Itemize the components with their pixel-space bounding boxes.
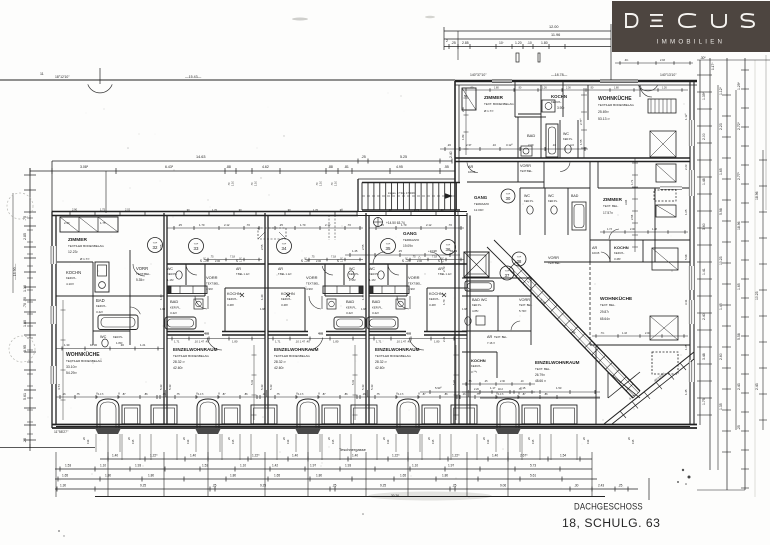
svg-text:1.16²: 1.16² <box>369 278 376 282</box>
strip end vertical <box>648 478 650 500</box>
svg-text:3.48²: 3.48² <box>227 303 234 307</box>
module 366 living room wall <box>369 331 406 333</box>
svg-text:1.53: 1.53 <box>202 464 208 468</box>
svg-text:1.93: 1.93 <box>345 464 351 468</box>
svg-text:1.10: 1.10 <box>240 464 246 468</box>
svg-text:42.60²: 42.60² <box>173 366 183 370</box>
svg-text:2.55: 2.55 <box>361 244 365 250</box>
svg-text:4.62: 4.62 <box>262 165 269 169</box>
leftmost vorr <box>129 250 131 345</box>
svg-text:2.90: 2.90 <box>64 221 70 225</box>
svg-text:3.42²: 3.42² <box>372 311 379 315</box>
svg-text:1.17⁵: 1.17⁵ <box>298 392 304 396</box>
faint scan smudges <box>368 492 492 501</box>
svg-text:63.09: 63.09 <box>450 249 457 253</box>
svg-text:1.39⁵: 1.39⁵ <box>461 134 465 140</box>
right dimension column verticals <box>699 60 701 425</box>
module 164 bathtub <box>165 317 196 329</box>
svg-text:1.10: 1.10 <box>232 181 235 186</box>
svg-text:KER.PL.: KER.PL. <box>548 199 558 203</box>
svg-text:12.09²²: 12.09²² <box>474 208 484 212</box>
svg-text:KOCHN: KOCHN <box>614 245 629 250</box>
module 164 BAD <box>167 295 205 297</box>
leftmost dim ticks <box>56 348 164 350</box>
svg-text:1.65: 1.65 <box>684 209 688 215</box>
svg-text:.25: .25 <box>451 41 456 45</box>
corridor dim line <box>345 254 460 256</box>
svg-text:2.12: 2.12 <box>224 223 230 227</box>
svg-text:VORR: VORR <box>520 164 531 168</box>
svg-text:33: 33 <box>194 246 199 251</box>
module 265 VORR <box>324 264 326 296</box>
svg-text:18.96: 18.96 <box>737 221 741 230</box>
svg-text:2.93: 2.93 <box>660 59 665 62</box>
svg-text:KOCHN: KOCHN <box>227 292 241 296</box>
zimmer right vertical dim chain <box>634 158 636 252</box>
svg-text:VORR: VORR <box>306 275 318 280</box>
svg-text:BAD: BAD <box>96 298 105 303</box>
svg-text:1.70: 1.70 <box>300 223 306 227</box>
right loggia rects <box>656 164 676 182</box>
svg-text:VORR: VORR <box>136 266 148 271</box>
svg-text:140°13'10'': 140°13'10'' <box>660 73 677 77</box>
svg-text:28.32 ²²: 28.32 ²² <box>274 360 287 364</box>
svg-text:1.98: 1.98 <box>160 307 166 311</box>
building bottom wall <box>52 424 697 426</box>
svg-text:2.00: 2.00 <box>316 259 322 263</box>
module 366 door arcs <box>388 266 399 275</box>
svg-text:.10 1.47 .40: .10 1.47 .40 <box>194 340 209 344</box>
faint dashed circles left margin <box>7 193 33 219</box>
svg-text:WC: WC <box>100 335 107 339</box>
svg-text:.75: .75 <box>476 392 480 396</box>
svg-text:2.30: 2.30 <box>500 380 505 383</box>
corridor door arcs below row1 wall <box>467 163 478 173</box>
left wall window gaps <box>51 246 53 264</box>
row1 closet left <box>462 88 476 110</box>
svg-text:4.95: 4.95 <box>396 165 403 169</box>
corridor door arcs <box>373 252 385 264</box>
leftmost kitchen fixtures <box>95 262 109 292</box>
svg-text:.55: .55 <box>444 165 449 169</box>
svg-text:VORR: VORR <box>519 298 530 302</box>
svg-text:5.61: 5.61 <box>23 393 27 400</box>
svg-text:2.55: 2.55 <box>630 214 634 220</box>
svg-text:WOHNKÜCHE: WOHNKÜCHE <box>598 95 632 102</box>
svg-text:3.31: 3.31 <box>684 299 688 305</box>
svg-text:7.18: 7.18 <box>432 256 437 259</box>
svg-text:1.80: 1.80 <box>316 474 322 478</box>
svg-text:5.25: 5.25 <box>400 155 407 159</box>
svg-text:1.73: 1.73 <box>607 228 612 231</box>
svg-text:1.80: 1.80 <box>541 41 548 45</box>
svg-text:2.00: 2.00 <box>417 259 423 263</box>
svg-text:.86: .86 <box>544 392 548 396</box>
svg-text:1.40: 1.40 <box>352 454 358 458</box>
svg-text:1.80: 1.80 <box>23 320 27 327</box>
module 164 door arcs <box>186 266 197 275</box>
svg-text:2.12: 2.12 <box>325 223 331 227</box>
svg-text:45B: 45B <box>406 332 411 336</box>
svg-text:1.93: 1.93 <box>135 464 141 468</box>
svg-text:1.43: 1.43 <box>622 332 627 335</box>
svg-text:.70: .70 <box>306 259 310 263</box>
svg-text:.75: .75 <box>276 392 280 396</box>
svg-text:1.10: 1.10 <box>335 181 338 186</box>
svg-text:.86: .86 <box>444 392 448 396</box>
diagonal end cross <box>608 372 640 398</box>
elevator shaft <box>464 252 489 277</box>
svg-text:1.70: 1.70 <box>442 299 446 305</box>
svg-text:2: 2 <box>446 39 448 43</box>
svg-text:TEXT.BEL.: TEXT.BEL. <box>520 169 533 173</box>
svg-text:12.23²: 12.23² <box>68 250 78 254</box>
svg-text:29.87²: 29.87² <box>600 310 609 314</box>
left dimension column <box>29 168 31 448</box>
svg-text:KOCHN: KOCHN <box>429 292 443 296</box>
svg-text:ZIMMER: ZIMMER <box>603 197 622 203</box>
svg-text:133: 133 <box>586 439 590 444</box>
svg-text:KOCHN: KOCHN <box>551 94 567 99</box>
top-right dimension block <box>444 30 611 32</box>
top wall niche at 270 <box>258 228 286 239</box>
svg-text:2.50: 2.50 <box>461 106 465 112</box>
svg-text:TEXTILER BODENBELAG: TEXTILER BODENBELAG <box>173 354 210 358</box>
svg-text:2.23: 2.23 <box>684 164 688 170</box>
svg-text:10·: 10· <box>499 41 504 45</box>
wc vorr bad cluster <box>520 187 590 189</box>
svg-text:28.32 ²²: 28.32 ²² <box>375 360 388 364</box>
svg-text:2.21: 2.21 <box>442 336 446 342</box>
leftmost top wall ticks <box>69 211 71 216</box>
svg-text:EINZELWOHNRAUM: EINZELWOHNRAUM <box>535 360 580 365</box>
svg-text:WC: WC <box>369 267 375 271</box>
svg-text:3·⁵⁹²: 3·⁵⁹² <box>471 370 477 374</box>
svg-text:11: 11 <box>40 72 44 76</box>
right section inner wall line <box>480 397 600 399</box>
svg-text:.25: .25 <box>618 484 623 488</box>
module 265 KOCHN <box>304 288 306 331</box>
svg-text:EINZELWOHNRAUM: EINZELWOHNRAUM <box>173 347 218 352</box>
svg-text:30: 30 <box>506 196 511 201</box>
svg-text:EINZELWOHNRAUM: EINZELWOHNRAUM <box>274 347 319 352</box>
window bay turret at 208 <box>197 399 219 428</box>
svg-text:.25: .25 <box>23 438 27 443</box>
svg-text:1.70: 1.70 <box>212 208 218 212</box>
svg-text:.30⁵: .30⁵ <box>700 56 706 60</box>
big diagonal ramp <box>516 262 640 391</box>
svg-text:9.25: 9.25 <box>260 484 266 488</box>
bottom right diagonal corner <box>604 352 694 424</box>
svg-text:135: 135 <box>431 439 435 444</box>
svg-text:1.65: 1.65 <box>737 283 741 290</box>
svg-text:WOHNKÜCHE: WOHNKÜCHE <box>600 295 633 302</box>
module 366 shelf <box>369 286 409 294</box>
svg-text:KER.PL.: KER.PL. <box>66 276 77 280</box>
svg-text:1.80: 1.80 <box>333 340 339 344</box>
right side dashed alcove <box>589 262 591 345</box>
svg-text:.86: .86 <box>144 392 148 396</box>
svg-text:135: 135 <box>131 439 135 444</box>
svg-text:1.75: 1.75 <box>100 208 106 212</box>
svg-text:5.61: 5.61 <box>530 474 536 478</box>
svg-text:TEXTILER BODENBELAG: TEXTILER BODENBELAG <box>598 103 635 107</box>
svg-text:TEXTILER BODENBELAG: TEXTILER BODENBELAG <box>274 354 311 358</box>
svg-text:11.96: 11.96 <box>551 33 560 37</box>
DECUS logo box <box>612 1 770 52</box>
svg-text:1.17⁵: 1.17⁵ <box>198 392 204 396</box>
svg-text:135: 135 <box>331 439 335 444</box>
apartment module at 164 corridor ticks <box>167 227 262 229</box>
svg-text:17.57²²: 17.57²² <box>603 211 613 215</box>
svg-text:KER.PL.: KER.PL. <box>614 251 625 255</box>
svg-text:25.69²²: 25.69²² <box>598 110 610 114</box>
svg-text:TEXT. BEL.: TEXT. BEL. <box>535 367 551 371</box>
svg-text:BAD: BAD <box>372 299 380 304</box>
svg-text:1.75: 1.75 <box>702 398 706 405</box>
roof line top <box>0 79 455 81</box>
svg-text:—15.43—: —15.43— <box>185 75 202 79</box>
svg-text:KER.PL.: KER.PL. <box>170 306 181 310</box>
svg-text:TEXT.BEL.: TEXT.BEL. <box>306 282 320 286</box>
strip ticks row4 <box>56 487 58 492</box>
svg-text:1.80: 1.80 <box>494 87 499 90</box>
svg-text:133: 133 <box>286 439 290 444</box>
svg-text:1.17⁵: 1.17⁵ <box>398 392 404 396</box>
apartment 37 bathtub <box>465 281 494 291</box>
svg-text:1.35: 1.35 <box>719 403 723 410</box>
svg-text:9.25: 9.25 <box>380 484 386 488</box>
svg-text:.10: .10 <box>492 143 496 147</box>
svg-text:.75: .75 <box>376 392 380 396</box>
svg-text:1.80: 1.80 <box>232 340 238 344</box>
svg-text:1.71: 1.71 <box>630 179 634 185</box>
lower mid dim row <box>420 391 600 393</box>
leftmost circled number <box>148 238 163 253</box>
svg-text:2.85: 2.85 <box>23 233 27 240</box>
strip ticks row2 <box>59 467 61 472</box>
svg-text:5.43: 5.43 <box>159 384 163 390</box>
svg-text:KER.PL.: KER.PL. <box>429 297 440 301</box>
module 366 circled number <box>381 239 396 254</box>
svg-text:1.80: 1.80 <box>230 474 236 478</box>
svg-text:.10 1.47 .40: .10 1.47 .40 <box>295 340 310 344</box>
apartment 37 dim rows <box>462 383 535 385</box>
module 265 top wall ticks <box>284 211 286 216</box>
svg-text:2.00: 2.00 <box>630 228 635 231</box>
svg-text:.90: .90 <box>186 208 190 212</box>
svg-text:.75: .75 <box>412 256 416 259</box>
svg-text:1.10: 1.10 <box>412 464 418 468</box>
svg-text:KER.PL.: KER.PL. <box>563 137 573 141</box>
svg-text:Ø 1.7²²: Ø 1.7²² <box>80 257 89 261</box>
apartment module at 265 corridor ticks <box>268 227 363 229</box>
row1 radiator right <box>648 99 676 113</box>
svg-text:.26: .26 <box>447 143 451 147</box>
apartment divider wall x=366 <box>365 213 367 424</box>
window bay turret at 408 <box>397 399 419 428</box>
svg-text:10.30: 10.30 <box>90 343 97 347</box>
diagonal upper stub <box>494 240 516 262</box>
svg-text:4.99²: 4.99² <box>206 287 213 291</box>
svg-text:TEXTILER BODENBELAG: TEXTILER BODENBELAG <box>68 244 105 248</box>
svg-text:2.90: 2.90 <box>72 208 78 212</box>
strip long verticals <box>55 452 57 497</box>
module 265 pre-wall dim line <box>305 259 363 261</box>
svg-text:10.23: 10.23 <box>719 256 723 265</box>
svg-text:1.98: 1.98 <box>260 307 266 311</box>
svg-text:.10: .10 <box>552 143 556 147</box>
svg-text:2.85: 2.85 <box>462 41 469 45</box>
svg-text:AR: AR <box>592 246 598 250</box>
apartment 37 toilet <box>465 317 471 325</box>
svg-text:1.22⁵: 1.22⁵ <box>392 454 400 458</box>
svg-text:.16: .16 <box>362 392 366 396</box>
svg-text:5.93⁵: 5.93⁵ <box>435 386 442 390</box>
svg-text:1.80: 1.80 <box>442 474 448 478</box>
bay window at 351 <box>351 405 377 424</box>
svg-text:.30: .30 <box>120 343 124 347</box>
module 265 washbasin <box>327 299 336 309</box>
svg-text:1.98: 1.98 <box>361 307 367 311</box>
svg-text:1.45: 1.45 <box>719 303 723 310</box>
svg-text:.86: .86 <box>244 392 248 396</box>
bay window at 151 <box>151 405 177 424</box>
svg-text:133: 133 <box>486 439 490 444</box>
svg-text:26.79²²: 26.79²² <box>535 373 545 377</box>
row2 walls <box>517 162 519 183</box>
svg-text:DACHGESCHOSS: DACHGESCHOSS <box>574 501 643 512</box>
svg-text:.90: .90 <box>287 208 291 212</box>
svg-text:2.02: 2.02 <box>125 208 131 212</box>
svg-text:WC: WC <box>524 194 530 198</box>
row1 bottom wall <box>455 157 690 159</box>
svg-text:3.60: 3.60 <box>702 223 706 230</box>
vertical stub from dim to wall <box>105 171 107 213</box>
svg-text:1.26: 1.26 <box>542 87 547 90</box>
svg-text:2.37: 2.37 <box>466 143 472 147</box>
row1 kochn sink <box>542 100 555 112</box>
svg-text:3.48²: 3.48² <box>281 303 288 307</box>
module 265 WC <box>343 264 345 285</box>
svg-text:.70: .70 <box>347 223 351 227</box>
svg-text:100.B: 100.B <box>592 251 599 255</box>
window bay turret at 108 <box>97 399 119 428</box>
leftmost bad <box>92 296 94 345</box>
svg-text:1.65: 1.65 <box>684 344 688 350</box>
svg-text:.55: .55 <box>468 380 472 383</box>
svg-text:TERRAZZO: TERRAZZO <box>474 202 490 206</box>
svg-text:KER.PL.: KER.PL. <box>524 199 534 203</box>
svg-text:.25: .25 <box>332 484 337 488</box>
window bay turret at 508 <box>497 399 519 428</box>
right dimension column ticks <box>697 74 712 76</box>
svg-text:3.84: 3.84 <box>624 199 628 205</box>
row1 dim line <box>440 148 588 150</box>
svg-text:3.90²: 3.90² <box>557 106 564 110</box>
svg-text:.75: .75 <box>210 256 214 259</box>
svg-text:KER.PL.: KER.PL. <box>96 304 107 308</box>
svg-text:18°12'10'': 18°12'10'' <box>55 75 70 79</box>
svg-text:1.65: 1.65 <box>62 474 68 478</box>
svg-text:1.65: 1.65 <box>400 474 406 478</box>
svg-text:.88: .88 <box>226 165 231 169</box>
svg-text:42.60²: 42.60² <box>375 366 385 370</box>
svg-text:+14.50 63.74: +14.50 63.74 <box>386 221 405 225</box>
svg-text:WC: WC <box>167 267 173 271</box>
svg-text:TEXT. BEL.: TEXT. BEL. <box>600 303 616 307</box>
svg-text:18.96: 18.96 <box>755 191 759 200</box>
stairwell block upper <box>358 178 455 180</box>
svg-text:.81: .81 <box>344 165 349 169</box>
svg-text:5.43: 5.43 <box>168 384 172 390</box>
svg-text:4.0: 4.0 <box>570 143 574 147</box>
apartment divider wall x=467 <box>466 213 468 424</box>
svg-text:1.41: 1.41 <box>702 268 706 275</box>
svg-text:1.20: 1.20 <box>515 41 522 45</box>
svg-text:1.70: 1.70 <box>199 223 205 227</box>
svg-text:1.17: 1.17 <box>490 386 496 390</box>
svg-text:WC: WC <box>563 132 569 136</box>
svg-text:30.26: 30.26 <box>391 494 399 498</box>
scan speckles <box>256 147 257 148</box>
svg-text:5.41: 5.41 <box>351 379 355 385</box>
svg-text:1.98: 1.98 <box>462 307 468 311</box>
svg-text:.90: .90 <box>238 208 242 212</box>
svg-text:2.77⁵: 2.77⁵ <box>579 118 583 125</box>
bottom dimension strips <box>100 458 592 460</box>
svg-text:1.40: 1.40 <box>112 454 118 458</box>
svg-text:3.42²: 3.42² <box>346 311 353 315</box>
svg-text:KER.PL.: KER.PL. <box>227 297 238 301</box>
logo word DECUS <box>625 14 754 27</box>
zimmer closet top-left <box>60 217 118 232</box>
svg-text:5.98: 5.98 <box>684 254 688 260</box>
svg-text:T.BEL 1.12²: T.BEL 1.12² <box>278 272 292 276</box>
svg-text:.88: .88 <box>328 165 333 169</box>
bay window at 551 <box>551 405 577 424</box>
svg-text:1.16²: 1.16² <box>167 278 174 282</box>
svg-text:3.48: 3.48 <box>702 353 706 360</box>
svg-text:ZIMMER: ZIMMER <box>484 95 503 101</box>
svg-text:3.95: 3.95 <box>23 345 27 352</box>
right wall window gaps <box>689 120 691 146</box>
svg-text:BAD: BAD <box>527 133 535 138</box>
svg-text:1.65: 1.65 <box>719 168 723 175</box>
module 265 door arcs <box>322 266 333 275</box>
ticks under logo <box>615 62 693 64</box>
svg-text:11°58'27'': 11°58'27'' <box>54 430 69 434</box>
row2 dim ticks zimmer <box>600 231 688 233</box>
svg-text:4.74: 4.74 <box>57 384 61 390</box>
svg-text:1.97: 1.97 <box>310 464 316 468</box>
leftmost kochn <box>56 261 93 263</box>
svg-text:KER.PL.: KER.PL. <box>551 100 562 104</box>
roof angle arc right <box>639 86 658 91</box>
right block right wall <box>689 81 691 424</box>
bay window at 451 <box>451 405 477 424</box>
svg-text:2.43: 2.43 <box>737 383 741 390</box>
svg-text:BAD WC: BAD WC <box>472 298 487 302</box>
module 265 shelf <box>323 286 363 294</box>
svg-text:4.10²²: 4.10²² <box>66 282 74 286</box>
svg-text:19.09²²: 19.09²² <box>403 244 413 248</box>
module 164 pre-wall dim line <box>204 259 262 261</box>
svg-text:EINZELWOHNRAUM: EINZELWOHNRAUM <box>375 347 420 352</box>
svg-text:2.60: 2.60 <box>719 353 723 360</box>
svg-text:2.23: 2.23 <box>719 123 723 130</box>
svg-text:AR: AR <box>487 335 493 339</box>
